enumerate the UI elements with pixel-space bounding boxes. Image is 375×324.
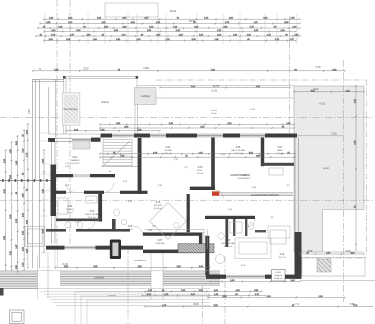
bottom wall of living room bbox=[206, 275, 302, 279]
interior wall x225 lower bbox=[225, 219, 228, 247]
svg-text:4,76: 4,76 bbox=[315, 65, 321, 69]
canopy top edge double bbox=[64, 76, 138, 78]
svg-text:0.02: 0.02 bbox=[68, 206, 73, 208]
top exterior wall with windows x100-297 bbox=[101, 134, 298, 138]
svg-text:11,07: 11,07 bbox=[213, 84, 220, 88]
stair arrow bbox=[104, 141, 130, 165]
svg-text:0.09: 0.09 bbox=[242, 175, 247, 177]
svg-text:37,65 m2: 37,65 m2 bbox=[224, 246, 234, 248]
svg-text:SZOBA: SZOBA bbox=[164, 149, 172, 152]
svg-text:8,30: 8,30 bbox=[83, 67, 89, 71]
fence posts left bbox=[0, 179, 51, 182]
roof over line center bbox=[137, 85, 294, 87]
planter left outside bbox=[25, 227, 44, 246]
svg-text:0.10: 0.10 bbox=[280, 254, 285, 256]
svg-text:0.04: 0.04 bbox=[166, 147, 171, 149]
svg-text:ÉTKEZŐ: ÉTKEZŐ bbox=[154, 204, 163, 207]
driveway hatched band far left bbox=[0, 272, 38, 290]
svg-text:0.05: 0.05 bbox=[198, 167, 203, 169]
svg-text:+0,02: +0,02 bbox=[319, 103, 326, 106]
interior wall y163 right bbox=[261, 163, 294, 166]
dining diamond bbox=[150, 203, 187, 240]
svg-text:8,36: 8,36 bbox=[193, 302, 199, 306]
svg-text:KONYHA: KONYHA bbox=[156, 242, 165, 245]
bath fixtures bbox=[58, 168, 286, 244]
svg-text:0,90: 0,90 bbox=[346, 250, 351, 253]
svg-text:12,4 m2: 12,4 m2 bbox=[88, 217, 96, 219]
svg-text:0.05: 0.05 bbox=[128, 226, 133, 228]
svg-text:0.01: 0.01 bbox=[73, 157, 78, 159]
svg-text:GARÁZS: GARÁZS bbox=[71, 159, 80, 162]
interior wall x186.5 bbox=[187, 194, 190, 232]
canopy and boundary thin lines bbox=[48, 77, 364, 252]
svg-text:10,36 m2: 10,36 m2 bbox=[274, 278, 283, 280]
canopy left edge bbox=[63, 77, 65, 134]
kitchen north wall bbox=[143, 232, 199, 236]
garage left window upper bbox=[52, 142, 56, 165]
interior wall y218 left bbox=[56, 219, 98, 222]
svg-text:0.08: 0.08 bbox=[226, 240, 231, 242]
red marker bbox=[212, 191, 219, 195]
walkway white gaps outline bbox=[38, 253, 164, 300]
svg-text:KÖZLEKEDŐ: KÖZLEKEDŐ bbox=[238, 177, 251, 180]
fireplace dark blob bbox=[110, 240, 121, 260]
svg-text:6,50: 6,50 bbox=[331, 132, 337, 136]
vestibule szelfogo gray box bbox=[135, 88, 157, 105]
svg-text:20,41: 20,41 bbox=[170, 9, 177, 13]
svg-text:LAKÓ SZOBA: LAKÓ SZOBA bbox=[85, 213, 99, 216]
door swing arcs bbox=[66, 182, 255, 236]
svg-text:HÁLÓ: HÁLÓ bbox=[127, 228, 133, 231]
bottom wall left section with window bbox=[46, 246, 199, 253]
connector wall x205 bbox=[205, 236, 209, 276]
interior wall x264 bbox=[261, 138, 264, 167]
svg-text:2,90: 2,90 bbox=[143, 66, 149, 70]
canopy corner posts bbox=[63, 76, 66, 79]
right glass door thin bbox=[295, 138, 299, 233]
svg-text:0.03: 0.03 bbox=[90, 211, 95, 213]
svg-text:1,50: 1,50 bbox=[28, 109, 31, 114]
downspout lines bbox=[0, 250, 220, 271]
interior wall chunk x112 bbox=[112, 219, 116, 232]
svg-text:0.07: 0.07 bbox=[158, 240, 163, 242]
svg-text:pult: pult bbox=[152, 225, 156, 228]
interior wall y190.5 bbox=[51, 191, 148, 194]
left exterior wall dark bar bbox=[51, 165, 57, 217]
svg-text:HÁLÓ SZOBA: HÁLÓ SZOBA bbox=[231, 149, 245, 152]
svg-text:5,2 m2: 5,2 m2 bbox=[67, 212, 74, 214]
svg-text:LAKÓ SZOBA: LAKÓ SZOBA bbox=[221, 242, 235, 245]
svg-text:Szemétsziget: Szemétsziget bbox=[63, 108, 78, 111]
interior wall right of stairs bbox=[138, 138, 142, 194]
svg-text:7,66: 7,66 bbox=[349, 302, 355, 306]
dim line 6,50 right of house bbox=[297, 135, 343, 137]
stair bottom line bbox=[101, 166, 138, 168]
svg-text:felett: felett bbox=[212, 112, 217, 115]
garden steps parallel lines bottom bbox=[38, 289, 210, 324]
svg-text:16,38 m2: 16,38 m2 bbox=[154, 208, 164, 210]
paving rectangle bottom right bbox=[300, 258, 375, 281]
svg-text:0.07: 0.07 bbox=[278, 147, 283, 149]
room stamp box 07.06 bbox=[272, 270, 286, 282]
svg-text:Dolgozó: Dolgozó bbox=[275, 275, 283, 277]
manhole square bottom-left bbox=[10, 310, 25, 324]
svg-text:8,3 m2: 8,3 m2 bbox=[197, 173, 204, 175]
svg-text:szélfogó: szélfogó bbox=[141, 95, 151, 98]
svg-text:6,10: 6,10 bbox=[62, 262, 68, 266]
interior wall x98 bbox=[98, 194, 102, 222]
svg-text:26,45: 26,45 bbox=[189, 20, 196, 23]
svg-text:FÜRDŐ: FÜRDŐ bbox=[66, 208, 74, 211]
right wall dark bbox=[295, 232, 302, 279]
stairs bbox=[103, 140, 207, 250]
driveway hatched band center-left bbox=[60, 272, 151, 287]
garage top thin line bbox=[48, 133, 100, 135]
svg-text:zöldpálya: zöldpálya bbox=[94, 277, 105, 280]
terrace bottom small bbox=[323, 251, 365, 253]
svg-text:ALAPRAJZ MAGYARÁZAT: ALAPRAJZ MAGYARÁZAT bbox=[251, 194, 279, 197]
driveway hatched band center bbox=[163, 272, 220, 287]
svg-text:21,35 m2: 21,35 m2 bbox=[71, 163, 81, 165]
svg-text:0.15: 0.15 bbox=[156, 202, 161, 204]
svg-text:07.06: 07.06 bbox=[276, 272, 282, 274]
svg-text:KÖZL.: KÖZL. bbox=[197, 169, 203, 172]
interior wall y229 bbox=[46, 229, 130, 232]
svg-text:előtető: előtető bbox=[101, 100, 109, 104]
svg-text:csapadékvíz: csapadékvíz bbox=[134, 260, 146, 262]
canopy right edge to szelfogo bbox=[136, 78, 138, 87]
svg-text:+2,60: +2,60 bbox=[249, 109, 255, 111]
interior wall garage bottom y174 bbox=[51, 174, 115, 177]
kitchen counter hatched bbox=[178, 244, 214, 253]
svg-text:7,1: 7,1 bbox=[295, 302, 299, 306]
top protruding rectangle bbox=[105, 3, 158, 17]
svg-text:GARDRÓB SZOBA: GARDRÓB SZOBA bbox=[230, 174, 251, 177]
garage top wall with window bbox=[48, 138, 101, 142]
svg-text:0.06: 0.06 bbox=[236, 147, 241, 149]
svg-text:14,1 m2: 14,1 m2 bbox=[164, 153, 172, 155]
svg-text:5,56: 5,56 bbox=[308, 250, 313, 253]
svg-text:GARD.: GARD. bbox=[277, 149, 284, 152]
left wall lower window bbox=[52, 216, 56, 244]
interior wall y216 center bbox=[205, 216, 255, 219]
stair small gray rect bbox=[73, 141, 90, 149]
furniture living room bbox=[173, 223, 290, 264]
terrace paving (light gray, right side) bbox=[294, 86, 364, 252]
interior wall x211 upper bbox=[211, 138, 215, 188]
trash island hatched rect in canopy bbox=[62, 93, 80, 125]
svg-text:2,1 m2: 2,1 m2 bbox=[277, 153, 284, 155]
kitchen east wall bbox=[199, 232, 202, 253]
interior wall y187 center bbox=[190, 187, 215, 190]
svg-text:terasz: terasz bbox=[323, 167, 330, 170]
svg-text:9,02: 9,02 bbox=[313, 87, 319, 91]
svg-text:11,2 m2: 11,2 m2 bbox=[278, 257, 286, 259]
parapet band under center bbox=[220, 193, 293, 196]
boundary dash-dot frame bbox=[156, 80, 367, 258]
svg-text:11,28: 11,28 bbox=[211, 90, 217, 93]
black mark left edge bbox=[0, 288, 4, 296]
svg-text:13,2 m2: 13,2 m2 bbox=[234, 153, 242, 155]
svg-text:szegély: szegély bbox=[108, 295, 116, 297]
svg-text:terasz: terasz bbox=[211, 109, 217, 112]
retaining wall left bbox=[32, 79, 64, 268]
small wall bits bath center bbox=[233, 219, 266, 236]
